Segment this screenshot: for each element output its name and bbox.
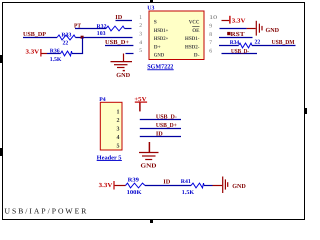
wire net USB_DP to R33 <box>23 37 57 39</box>
U3 pin name OE overline <box>192 26 200 34</box>
svg-text:22: 22 <box>63 41 69 47</box>
svg-text:ID: ID <box>156 130 163 137</box>
svg-text:1.5K: 1.5K <box>50 57 62 63</box>
wire R39 to R41, net ID <box>145 185 191 187</box>
svg-text:3: 3 <box>117 127 120 133</box>
wire U3 pin6 USB_D- <box>222 53 258 55</box>
svg-text:R36: R36 <box>50 48 60 54</box>
svg-text:100K: 100K <box>127 190 143 196</box>
wire U3 pin5 to ground <box>126 53 134 55</box>
svg-text:1.5K: 1.5K <box>182 190 195 196</box>
ground symbol under U3 <box>111 62 133 72</box>
svg-text:GND: GND <box>266 27 280 34</box>
svg-text:USB_D+: USB_D+ <box>156 122 177 129</box>
svg-text:1: 1 <box>117 110 120 116</box>
resistor R34 <box>230 40 252 48</box>
svg-text:HSD2-: HSD2- <box>185 44 200 50</box>
svg-text:4: 4 <box>139 40 142 46</box>
svg-text:6: 6 <box>209 48 212 54</box>
junction on USB_DP net <box>81 36 84 39</box>
ground symbol right of U3 (rotated) <box>256 21 262 36</box>
ground symbol bottom (rotated) <box>223 177 228 194</box>
IC U3 body SGM7222 <box>149 11 204 60</box>
svg-text:HSD1+: HSD1+ <box>154 28 169 34</box>
svg-text:R33: R33 <box>61 32 71 38</box>
connector P4 body <box>100 102 122 150</box>
resistor R39 <box>126 178 146 188</box>
svg-text:2: 2 <box>139 23 142 29</box>
svg-text:USB_DP: USB_DP <box>23 31 46 38</box>
wire U3 pin10 VCC to 3.3V <box>222 20 230 22</box>
wire P4 pin5 to ground <box>148 142 150 153</box>
ground symbol under P4 <box>139 153 159 160</box>
U3 value SGM7222 underlined <box>147 63 173 70</box>
wire net ID to U3 pin1 <box>116 20 133 22</box>
svg-text:USB_D-: USB_D- <box>156 114 177 121</box>
wire R36 to junction column <box>72 53 83 55</box>
svg-text:PT: PT <box>74 23 82 30</box>
svg-text:10: 10 <box>209 15 217 21</box>
svg-text:USB_D+: USB_D+ <box>105 39 129 46</box>
resistor R36 <box>47 48 72 56</box>
svg-text:USB_D-: USB_D- <box>231 48 249 55</box>
svg-text:GND: GND <box>232 183 246 190</box>
svg-text:P4: P4 <box>99 97 106 103</box>
svg-text:9: 9 <box>209 23 212 29</box>
svg-text:GND: GND <box>154 53 165 59</box>
power port 3.3V (right) <box>229 16 246 25</box>
wire U3 pin7 to R34 <box>219 45 239 47</box>
svg-text:GND: GND <box>116 72 130 79</box>
wire net PT to R32 <box>75 28 106 30</box>
resistor R33 <box>57 32 76 40</box>
wire junction down to R36 <box>82 38 84 54</box>
svg-text:D+: D+ <box>154 44 161 50</box>
junction dot near RST <box>227 32 230 35</box>
svg-text:1: 1 <box>139 15 142 21</box>
svg-text:VCC: VCC <box>189 20 200 26</box>
svg-text:22: 22 <box>255 39 261 45</box>
svg-text:U3: U3 <box>147 6 154 12</box>
wire R41 to bottom ground <box>204 185 213 187</box>
svg-text:SGM7222: SGM7222 <box>147 63 173 70</box>
wire R32 to U3 pin2 <box>125 28 132 30</box>
svg-text:USB/IAP/POWER: USB/IAP/POWER <box>5 206 89 215</box>
svg-text:5: 5 <box>117 143 120 149</box>
wire R34 to USB_DM <box>252 45 296 47</box>
svg-text:3.3V: 3.3V <box>26 49 40 56</box>
wire U3 pin9 OE <box>220 28 247 30</box>
svg-text:USB_DM: USB_DM <box>272 39 295 46</box>
svg-text:RST: RST <box>231 31 246 38</box>
svg-text:8: 8 <box>209 32 212 38</box>
svg-text:S: S <box>154 20 157 26</box>
svg-text:5: 5 <box>139 48 142 54</box>
svg-text:3: 3 <box>139 32 142 38</box>
svg-text:D-: D- <box>194 53 200 59</box>
wire P4 pin4 ID <box>140 136 181 138</box>
svg-text:3.3V: 3.3V <box>232 17 246 24</box>
wire P4 pin3 USB_D+ <box>140 128 181 130</box>
svg-text:7: 7 <box>209 40 212 46</box>
svg-text:HSD1-: HSD1- <box>185 36 200 42</box>
power port 3.3V (upper left) <box>26 49 48 57</box>
wire U3 pin8 RST <box>219 37 253 39</box>
svg-text:GND: GND <box>141 163 158 170</box>
svg-text:R41: R41 <box>181 179 191 185</box>
wire to right ground <box>247 28 256 30</box>
resistor R41 <box>181 179 204 188</box>
svg-text:4: 4 <box>117 135 120 141</box>
wire R33 to U3 pin3 <box>76 37 133 39</box>
resistor R32 <box>97 24 125 31</box>
svg-text:3.3V: 3.3V <box>99 182 113 189</box>
power port 3.3V (bottom) <box>99 181 126 190</box>
wire P4 pin2 USB_D- <box>140 119 181 121</box>
svg-text:R39: R39 <box>128 178 139 184</box>
svg-text:103: 103 <box>97 31 106 37</box>
net label USB_D+ with wire to U3 pin4 <box>105 39 133 46</box>
svg-text:R32: R32 <box>97 24 107 30</box>
svg-text:OE: OE <box>192 28 200 34</box>
power port +5V <box>134 96 147 112</box>
P4 value Header 5 <box>97 154 122 161</box>
svg-text:ID: ID <box>115 14 122 21</box>
svg-text:ID: ID <box>163 179 171 186</box>
svg-text:R34: R34 <box>230 40 240 46</box>
svg-text:2: 2 <box>117 118 120 124</box>
svg-text:HSD2+: HSD2+ <box>154 36 169 42</box>
